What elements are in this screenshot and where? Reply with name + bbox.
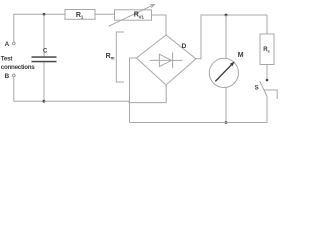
wire RV1 to bridge top corner: [152, 15, 167, 35]
wire from terminal B down to bottom rail: [14, 77, 44, 102]
svg-text:Test: Test: [1, 56, 13, 63]
terminal A circle: [13, 42, 16, 45]
diode triangle: [159, 54, 171, 66]
wire Rs to switch: [266, 65, 268, 79]
resistor Rs box: [260, 34, 274, 65]
svg-text:B: B: [5, 73, 10, 80]
bracket for Rm (meter branch resistance): [116, 32, 124, 82]
wire between R1 and RV1: [95, 13, 115, 15]
wire bottom rail to bridge bottom corner: [44, 85, 166, 103]
svg-text:A: A: [5, 41, 10, 48]
meter needle: [215, 65, 231, 82]
variable resistor RV1 box: [115, 10, 152, 20]
wire top-right corner down to Rs: [266, 15, 268, 34]
variable resistor RV1 arrow: [109, 4, 155, 26]
svg-text:m: m: [111, 56, 115, 61]
diode inside bridge: lead line: [150, 59, 183, 61]
svg-text:C: C: [43, 47, 48, 54]
wire bridge left corner down to bottom bus: [130, 58, 137, 123]
svg-text:M: M: [238, 52, 244, 59]
capacitor C plates: [32, 56, 57, 58]
wire top-left from terminal A up and right to R1: [14, 14, 65, 42]
wire bridge right corner up to top-right rail: [196, 15, 267, 59]
node switch top contact dot: [266, 79, 269, 82]
switch S blade: [260, 81, 268, 97]
wire capacitor top lead: [43, 14, 45, 56]
meter M circle: [209, 58, 238, 87]
switch S contact bracket: [264, 90, 277, 99]
wire capacitor bottom lead: [43, 62, 45, 101]
svg-text:connections: connections: [1, 64, 36, 71]
bridge rectifier D diamond: [136, 35, 196, 85]
wire meter top stem: [225, 15, 227, 58]
svg-text:1: 1: [81, 14, 84, 19]
svg-text:V1: V1: [139, 15, 145, 20]
node junction dot bottom of capacitor branch: [43, 100, 46, 103]
node junction dot meter bottom: [225, 121, 228, 124]
svg-text:D: D: [182, 43, 187, 50]
node junction dot meter top: [225, 14, 228, 17]
svg-text:S: S: [255, 85, 259, 91]
terminal B circle: [13, 74, 16, 77]
resistor R1 box: [65, 10, 95, 20]
diode cathode bar: [172, 52, 174, 68]
node junction dot top of capacitor branch: [43, 13, 46, 16]
wire bottom bus: [130, 97, 268, 123]
svg-text:s: s: [268, 49, 271, 54]
wire meter bottom stem: [225, 88, 227, 123]
